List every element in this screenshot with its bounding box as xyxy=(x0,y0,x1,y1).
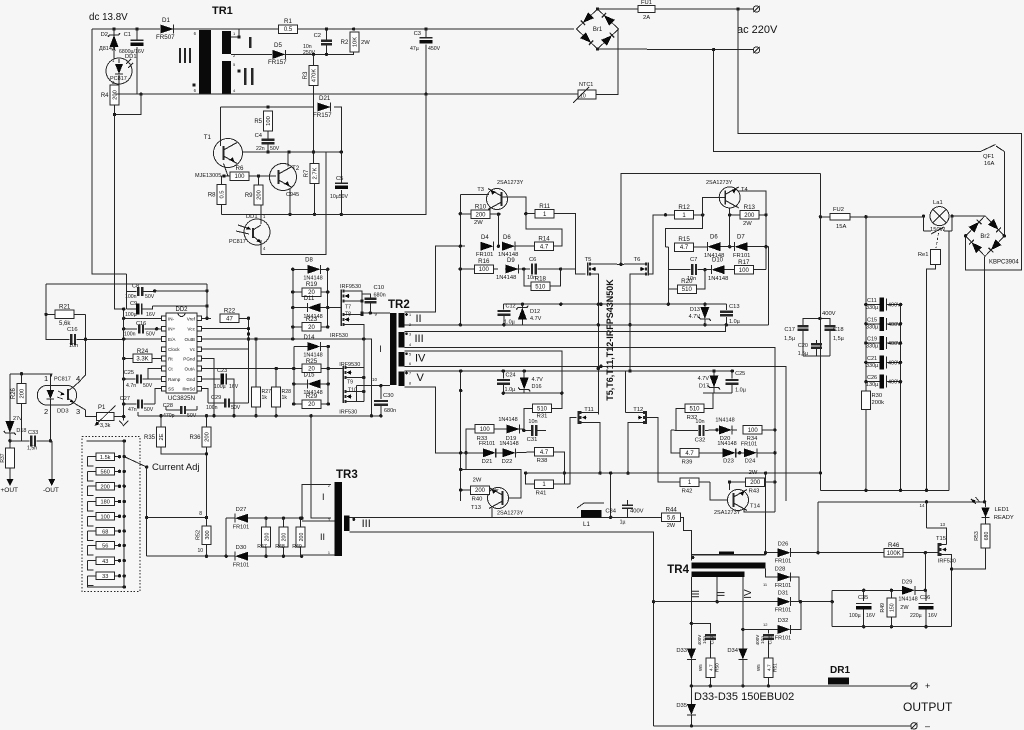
svg-text:4.7V: 4.7V xyxy=(689,314,701,320)
svg-text:100: 100 xyxy=(234,174,245,180)
diode D19 1N4148 xyxy=(507,425,520,434)
svg-text:C21: C21 xyxy=(867,356,877,362)
svg-text:FU2: FU2 xyxy=(833,207,844,213)
svg-text:C16: C16 xyxy=(136,321,146,327)
wire T8 source to ground jog xyxy=(364,339,372,416)
capacitor C31 10n xyxy=(531,425,533,436)
zener D13 4.7V xyxy=(704,304,706,307)
svg-text:R11: R11 xyxy=(539,203,550,210)
capacitor C35 100u/16V xyxy=(863,590,865,601)
wire TR3 winding II top xyxy=(302,520,335,522)
svg-text:C28: C28 xyxy=(163,403,173,409)
transistor T14 2SA1273Y xyxy=(728,490,749,511)
svg-text:12: 12 xyxy=(763,622,768,627)
svg-text:C3: C3 xyxy=(414,31,421,37)
svg-text:6: 6 xyxy=(409,362,411,366)
svg-text:4.7: 4.7 xyxy=(540,244,549,250)
zener D18 27v xyxy=(10,373,22,375)
svg-text:T15: T15 xyxy=(936,536,946,542)
diode D32 FR101 xyxy=(743,628,778,630)
svg-text:C13: C13 xyxy=(729,304,740,310)
svg-text:50V: 50V xyxy=(145,294,155,300)
ground arrow control xyxy=(123,417,125,421)
svg-text:D22: D22 xyxy=(502,459,513,465)
svg-text:T5: T5 xyxy=(585,257,592,263)
svg-text:TR2: TR2 xyxy=(388,299,410,311)
svg-text:R42: R42 xyxy=(682,489,693,495)
resistor R18 510 xyxy=(531,282,550,291)
capacitor C36 220u/16V xyxy=(925,590,927,601)
TR1 winding II marks xyxy=(244,68,247,85)
svg-text:D2: D2 xyxy=(101,32,108,38)
svg-text:10: 10 xyxy=(197,548,203,554)
resistor R9 200 xyxy=(254,185,263,205)
TR1 winding I mark xyxy=(249,37,252,48)
svg-text:1.0µ: 1.0µ xyxy=(505,387,517,393)
svg-text:T13: T13 xyxy=(471,505,481,511)
svg-text:2W: 2W xyxy=(743,221,752,227)
wire winding III bottom long xyxy=(405,348,775,430)
wire output minus bus xyxy=(654,725,911,727)
resistor R7 2.7K xyxy=(310,164,319,184)
capacitor C13 1.0u xyxy=(725,304,727,310)
wire T12 source xyxy=(628,423,638,474)
wire Br2 minus down xyxy=(984,256,986,502)
svg-text:150: 150 xyxy=(890,603,896,612)
LED1 READY xyxy=(985,502,987,507)
wire bank right rail xyxy=(123,441,125,587)
svg-text:C26: C26 xyxy=(867,375,877,381)
svg-text:R43: R43 xyxy=(749,489,760,495)
svg-text:D4: D4 xyxy=(481,235,489,241)
svg-text:R51: R51 xyxy=(773,663,779,672)
terminal -OUT xyxy=(51,441,53,479)
wire T14 collector xyxy=(729,482,731,490)
svg-text:510: 510 xyxy=(689,407,700,413)
svg-text:IV: IV xyxy=(743,589,754,599)
svg-text:DD3: DD3 xyxy=(57,409,69,415)
svg-text:200: 200 xyxy=(205,432,211,442)
svg-text:510: 510 xyxy=(682,287,693,293)
diode D1 FR507 xyxy=(161,25,174,34)
svg-text:1,5n: 1,5n xyxy=(27,446,37,452)
svg-text:C7: C7 xyxy=(690,257,697,263)
svg-text:P1: P1 xyxy=(98,405,106,411)
resistor R25 20 xyxy=(302,364,321,373)
svg-text:R29: R29 xyxy=(306,393,318,400)
resistor R47 200 xyxy=(262,527,271,547)
svg-text:IV: IV xyxy=(415,353,426,365)
svg-text:200k: 200k xyxy=(872,400,885,406)
wire TR3 winding II bottom xyxy=(302,555,335,556)
resistor bank 200 xyxy=(96,482,115,490)
svg-text:20: 20 xyxy=(308,402,315,408)
resistor R40 200 2W xyxy=(471,486,490,495)
svg-text:680n: 680n xyxy=(374,293,386,299)
svg-text:4.7: 4.7 xyxy=(767,664,773,671)
svg-text:C16: C16 xyxy=(67,327,78,333)
wire TR2 primary top pin 9 xyxy=(362,312,390,314)
svg-text:16V: 16V xyxy=(928,613,938,619)
svg-text:10n: 10n xyxy=(695,419,704,425)
capacitor C30 680n xyxy=(374,400,388,402)
svg-text:200: 200 xyxy=(475,488,486,494)
svg-text:50V: 50V xyxy=(146,332,156,338)
svg-text:14: 14 xyxy=(920,503,926,508)
svg-text:ilimSd: ilimSd xyxy=(182,387,195,392)
svg-text:R47: R47 xyxy=(257,544,267,550)
resistor R6 100 xyxy=(230,172,249,181)
resistor R24 3.3K xyxy=(133,354,152,363)
svg-text:NTC1: NTC1 xyxy=(579,82,593,88)
resistor R48 200 xyxy=(279,527,288,547)
wire T12 drain xyxy=(626,412,638,414)
resistor R14 4.7 xyxy=(535,242,554,251)
svg-text:R9: R9 xyxy=(245,193,253,199)
svg-text:V: V xyxy=(417,372,425,384)
svg-text:1k: 1k xyxy=(262,395,268,401)
svg-text:OutA: OutA xyxy=(185,367,196,372)
svg-text:1: 1 xyxy=(409,313,411,317)
TR4 winding III lead xyxy=(690,577,692,645)
svg-text:D13: D13 xyxy=(690,307,700,313)
wire E/A to IC xyxy=(124,338,162,340)
wire T11 gate rail xyxy=(563,473,565,484)
resistor bank 100 xyxy=(96,513,115,521)
svg-text:KBPC3904: KBPC3904 xyxy=(989,259,1019,265)
wire OutA to gates2 xyxy=(328,368,343,370)
svg-text:+OUT: +OUT xyxy=(1,487,19,494)
svg-text:4.7: 4.7 xyxy=(680,245,689,251)
svg-text:DR1: DR1 xyxy=(830,665,850,676)
svg-text:1.0µ: 1.0µ xyxy=(729,319,741,325)
svg-text:50V: 50V xyxy=(144,407,154,413)
capacitor C1 6800u/16V xyxy=(136,29,138,40)
svg-text:T3: T3 xyxy=(477,187,484,193)
fuse FU2 15A xyxy=(820,216,830,218)
wire main DC bus xyxy=(819,173,821,490)
svg-text:R1: R1 xyxy=(284,18,292,25)
svg-text:R24: R24 xyxy=(137,348,149,355)
svg-text:330µ: 330µ xyxy=(866,324,879,330)
svg-text:2.7K: 2.7K xyxy=(313,167,319,179)
svg-text:II: II xyxy=(416,313,422,325)
svg-text:100: 100 xyxy=(479,267,490,273)
fuse FU1 2A xyxy=(598,8,639,10)
svg-text:IN+: IN+ xyxy=(168,327,176,332)
svg-text:FU1: FU1 xyxy=(641,0,652,6)
svg-text:C33: C33 xyxy=(28,430,38,436)
resistor R32 510 xyxy=(685,404,704,413)
wire DD3 pin3 to P1 xyxy=(74,403,97,417)
capacitor C16 10n xyxy=(70,334,72,345)
svg-text:R37: R37 xyxy=(0,453,6,462)
svg-text:C30: C30 xyxy=(383,393,394,399)
resistor R22 47 xyxy=(220,314,239,323)
diode D33 xyxy=(690,645,692,650)
TR2 pin dots xyxy=(405,313,408,316)
capacitor C5 10u50V xyxy=(340,152,342,183)
svg-text:W5: W5 xyxy=(698,664,703,671)
svg-text:I: I xyxy=(379,344,382,354)
wire T13 emitter xyxy=(491,508,493,517)
svg-text:10: 10 xyxy=(372,377,378,382)
resistor bank 33 xyxy=(96,572,115,580)
svg-text:R20: R20 xyxy=(681,278,693,285)
svg-text:Rt: Rt xyxy=(168,357,173,362)
svg-text:D12: D12 xyxy=(530,309,540,315)
svg-text:D17: D17 xyxy=(699,383,709,389)
svg-text:R53: R53 xyxy=(974,531,980,541)
resistor R29 20 xyxy=(302,400,321,409)
resistor R37 xyxy=(5,448,14,468)
svg-text:-OUT: -OUT xyxy=(43,487,59,494)
svg-text:IRF9530: IRF9530 xyxy=(340,284,361,290)
diode D10 1N4148 xyxy=(712,265,725,274)
svg-text:FR157: FR157 xyxy=(268,59,287,66)
svg-text:R30: R30 xyxy=(872,393,883,399)
wire gate node T5 xyxy=(561,268,576,270)
resistor R44 5.6 2W xyxy=(662,513,681,522)
svg-text:QF1: QF1 xyxy=(983,154,994,160)
svg-text:C25: C25 xyxy=(735,371,745,377)
svg-text:T7: T7 xyxy=(345,305,351,311)
wire T13 bottom to TR3 rail xyxy=(460,500,462,502)
MOSFET T15 IRF530 xyxy=(938,543,940,556)
svg-text:10n: 10n xyxy=(760,636,766,644)
svg-text:200: 200 xyxy=(257,190,263,200)
thermistor NTC1 10 xyxy=(578,90,596,99)
wire base drive y=107 xyxy=(221,106,314,108)
optocoupler DD3 PC817 xyxy=(37,385,76,405)
optocoupler DD1 PC817 LED side xyxy=(106,58,132,84)
svg-text:C1: C1 xyxy=(124,32,131,38)
svg-text:Re1: Re1 xyxy=(918,252,929,258)
diode D14 1N4148 xyxy=(307,342,320,351)
svg-text:400V: 400V xyxy=(888,380,901,386)
svg-text:D28: D28 xyxy=(775,567,786,573)
svg-text:1N4148: 1N4148 xyxy=(708,276,728,282)
capacitor C10 680n xyxy=(369,304,371,313)
svg-text:2SA1273Y: 2SA1273Y xyxy=(497,180,524,186)
svg-text:C32: C32 xyxy=(695,438,706,444)
svg-text:W5: W5 xyxy=(756,664,761,671)
diode D8 1N4148 xyxy=(307,265,320,274)
wire T7/T8 outputs xyxy=(349,291,362,313)
resistor R27 1k xyxy=(252,387,261,407)
svg-text:FR101: FR101 xyxy=(741,442,758,448)
svg-text:DD2: DD2 xyxy=(175,307,188,313)
svg-text:400V: 400V xyxy=(888,360,901,366)
wire T14 right rail xyxy=(774,430,776,512)
svg-text:4.7: 4.7 xyxy=(709,664,715,671)
terminal ac L xyxy=(753,6,759,12)
wire DD1 emitter to feedback xyxy=(261,152,326,254)
svg-text:+: + xyxy=(925,681,930,691)
wire top dc rail y=29 xyxy=(92,28,160,30)
wire winding IV bottom rail xyxy=(405,366,786,501)
svg-text:L1: L1 xyxy=(583,521,590,528)
resistor R23 20 xyxy=(302,323,321,332)
svg-text:47n: 47n xyxy=(128,407,137,413)
svg-text:5,6: 5,6 xyxy=(667,516,676,522)
resistor R33 100 xyxy=(475,425,494,434)
wire NTC1 to bridge Br1 xyxy=(596,29,618,95)
svg-text:R22: R22 xyxy=(224,308,236,315)
MOSFET T11 xyxy=(578,411,580,424)
svg-text:Ct: Ct xyxy=(168,367,173,372)
svg-text:R26: R26 xyxy=(11,387,17,399)
svg-text:4.7: 4.7 xyxy=(685,451,694,457)
wire ladder1 right rail xyxy=(327,269,329,327)
svg-text:LED1: LED1 xyxy=(995,507,1010,513)
svg-text:C945: C945 xyxy=(286,192,299,198)
potentiometer P1 3.3k xyxy=(97,412,115,420)
wire snubber2 bottom rail xyxy=(503,392,562,394)
transistor T13 2SA1273Y xyxy=(488,488,509,509)
wire T9/T10 outputs xyxy=(352,339,364,368)
svg-text:R3: R3 xyxy=(303,71,309,79)
wire TR2 winding II top feed xyxy=(405,246,465,312)
svg-text:200: 200 xyxy=(750,480,761,486)
wire R39 left rail xyxy=(671,429,676,432)
svg-text:43: 43 xyxy=(102,559,108,565)
svg-text:5: 5 xyxy=(409,353,411,357)
wire Gnd to C23 xyxy=(202,378,215,380)
resistor bank 43 xyxy=(96,557,115,565)
svg-text:16V: 16V xyxy=(146,312,156,318)
svg-text:220µ: 220µ xyxy=(910,613,922,619)
diode D11 1N4148 xyxy=(307,303,320,312)
wire T6 gate feed xyxy=(648,215,665,274)
zener D2 Д814Д xyxy=(113,29,115,59)
capacitor C4 22n/50V xyxy=(262,139,275,141)
wire T3 collector xyxy=(489,207,491,215)
relay Re1 coil xyxy=(936,233,939,248)
svg-text:100n: 100n xyxy=(124,332,136,338)
TR4 winding IV lead xyxy=(742,577,744,645)
svg-text:1N4148: 1N4148 xyxy=(498,417,517,423)
svg-text:2A: 2A xyxy=(643,15,650,21)
wire D27-D30 left link xyxy=(225,518,227,556)
svg-text:D30: D30 xyxy=(236,545,247,551)
svg-text:R35: R35 xyxy=(144,435,156,441)
svg-text:200: 200 xyxy=(744,213,755,219)
svg-text:T1: T1 xyxy=(204,134,212,141)
wire winding II bottom rail y=324.8 xyxy=(405,324,769,326)
wire output plus bus xyxy=(691,685,910,687)
wire R21 feed xyxy=(46,283,207,285)
diode D20 1N4148 xyxy=(719,425,732,434)
zener D12 4.7V xyxy=(521,304,523,307)
wire C7 left down to R20 xyxy=(667,270,669,289)
svg-text:C12: C12 xyxy=(506,304,516,310)
svg-text:3: 3 xyxy=(76,407,80,416)
svg-text:330µ: 330µ xyxy=(866,344,879,350)
diode D9 1N4148 xyxy=(506,265,519,274)
wire ladder1 to gates xyxy=(328,307,342,309)
svg-text:D7: D7 xyxy=(737,235,745,241)
wire source rail y=473.1 xyxy=(526,472,821,474)
wire R41 to T11 gate xyxy=(564,418,576,485)
svg-text:1N4148: 1N4148 xyxy=(496,275,516,281)
svg-text:330µ: 330µ xyxy=(866,363,879,369)
wire T6 drain to bus xyxy=(621,263,640,265)
wire C3 down rail xyxy=(222,94,427,214)
diode D6 1N4148 xyxy=(502,242,515,251)
resistor R11 1 xyxy=(535,209,554,218)
svg-text:R4: R4 xyxy=(101,93,109,99)
svg-text:510: 510 xyxy=(537,407,548,413)
svg-text:3.3K: 3.3K xyxy=(136,357,148,363)
svg-text:470K: 470K xyxy=(312,69,318,83)
svg-text:Current Adj: Current Adj xyxy=(152,462,200,473)
capacitor C8 100n/50V xyxy=(126,274,128,292)
wire T12 gate xyxy=(646,418,671,483)
capacitor C24 1.0u xyxy=(502,371,504,379)
svg-text:Gnd: Gnd xyxy=(186,377,195,382)
svg-text:10n: 10n xyxy=(702,636,708,644)
svg-text:1N4148: 1N4148 xyxy=(717,441,736,447)
diode D31 FR101 xyxy=(717,601,777,603)
svg-text:13: 13 xyxy=(940,522,946,527)
MOSFET T9 IRF9530 xyxy=(342,366,344,379)
svg-text:D8: D8 xyxy=(305,258,313,264)
wire contact node down xyxy=(948,231,950,490)
resistor R3 470K xyxy=(309,66,318,86)
svg-text:–: – xyxy=(925,721,930,730)
svg-text:1: 1 xyxy=(328,551,330,555)
svg-text:400V: 400V xyxy=(697,635,702,646)
svg-text:C9: C9 xyxy=(130,301,137,307)
transistor T3 2SA1273Y xyxy=(487,189,508,210)
svg-text:D21: D21 xyxy=(319,95,331,102)
resistor R15 4.7 xyxy=(675,243,694,252)
svg-text:FR101: FR101 xyxy=(775,608,792,614)
svg-text:C31: C31 xyxy=(527,437,538,443)
svg-text:FR101: FR101 xyxy=(233,525,250,531)
svg-text:C17: C17 xyxy=(784,327,795,333)
capacitor C15 330µ/400V xyxy=(866,323,880,325)
svg-text:2W: 2W xyxy=(667,523,676,529)
svg-text:560: 560 xyxy=(101,470,110,476)
svg-text:16V: 16V xyxy=(866,613,876,619)
capacitor C11 330µ/400V xyxy=(866,304,880,306)
diode D21 FR157 xyxy=(318,103,331,112)
svg-text:C25: C25 xyxy=(124,370,134,376)
resistor R35 2E xyxy=(157,427,166,447)
bridge rectifier Br1 xyxy=(577,9,619,49)
svg-text:100: 100 xyxy=(480,427,491,433)
MOSFET T10 IRF530 xyxy=(342,390,344,403)
wire PGnd stub xyxy=(202,359,215,416)
svg-text:D14: D14 xyxy=(303,335,315,341)
svg-text:50V: 50V xyxy=(231,405,241,411)
resistor R21 5.6k xyxy=(55,310,74,319)
wire DD3 pin4 xyxy=(74,339,86,386)
capacitor C16b 100n/50V xyxy=(138,324,140,333)
wire TR3 winding I xyxy=(302,485,331,519)
svg-text:FR101: FR101 xyxy=(476,252,493,258)
zener D16 4.7V xyxy=(523,371,525,378)
svg-text:1N4148: 1N4148 xyxy=(499,441,518,447)
wire OutB xyxy=(202,338,364,340)
svg-text:400V: 400V xyxy=(755,635,760,646)
wire Vc stub xyxy=(202,348,249,350)
svg-text:R18: R18 xyxy=(535,275,547,282)
svg-text:1µ: 1µ xyxy=(620,520,626,526)
wire D5 output node xyxy=(286,51,354,54)
